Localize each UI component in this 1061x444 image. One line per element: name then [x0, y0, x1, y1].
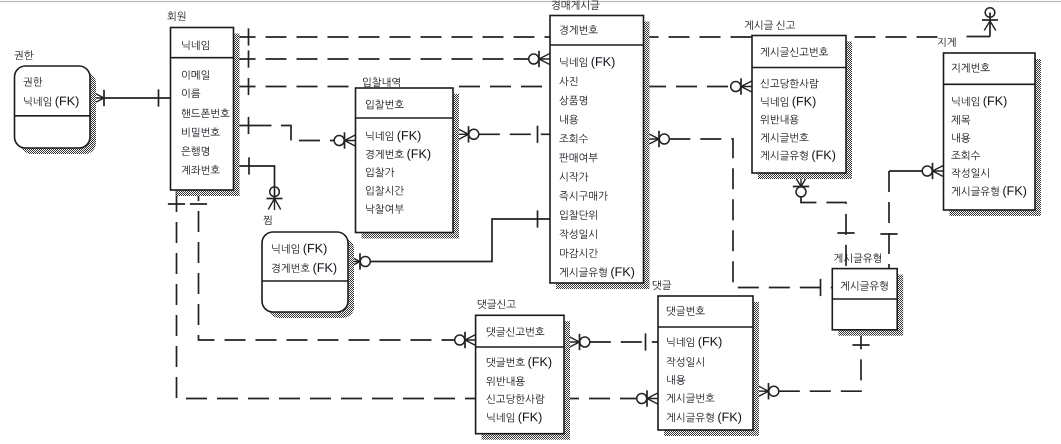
relationship 경매게시글-입찰내역 [458, 129, 469, 140]
relationship 회원-경매게시글 [235, 58, 529, 60]
entity 찜 [262, 232, 354, 318]
relationship 회원-찜 [235, 166, 275, 199]
relationship 게시글유형-경매게시글 [649, 134, 660, 145]
entity 경매게시글 [550, 16, 650, 290]
relationship 회원-댓글신고 [199, 191, 455, 340]
entity 회원 [171, 28, 240, 197]
relationship 회원-입찰내역 [235, 125, 272, 127]
entity 게시글유형 [832, 269, 903, 336]
relationship 회원-지게 [235, 36, 942, 38]
top window border line [0, 1, 1061, 3]
relationship 게시글유형-댓글 [758, 386, 769, 397]
relationship 회원-게시글신고 [235, 86, 353, 88]
entity 지게 [944, 53, 1042, 216]
entity 입찰내역 [356, 88, 460, 239]
relationship 경매게시글-찜 [350, 256, 361, 267]
entity 권한 [15, 66, 97, 154]
entity 댓글신고 [476, 315, 570, 439]
relationship 권한-회원 [94, 93, 105, 104]
entity 게시글 신고 [752, 36, 852, 180]
relationship 게시글유형-게시글신고 [796, 178, 807, 187]
entity 댓글 [658, 296, 759, 436]
relationship 회원-댓글 [177, 191, 637, 399]
relationship 댓글-댓글신고 [569, 337, 580, 348]
relationship 게시글유형-지게 [933, 166, 944, 177]
